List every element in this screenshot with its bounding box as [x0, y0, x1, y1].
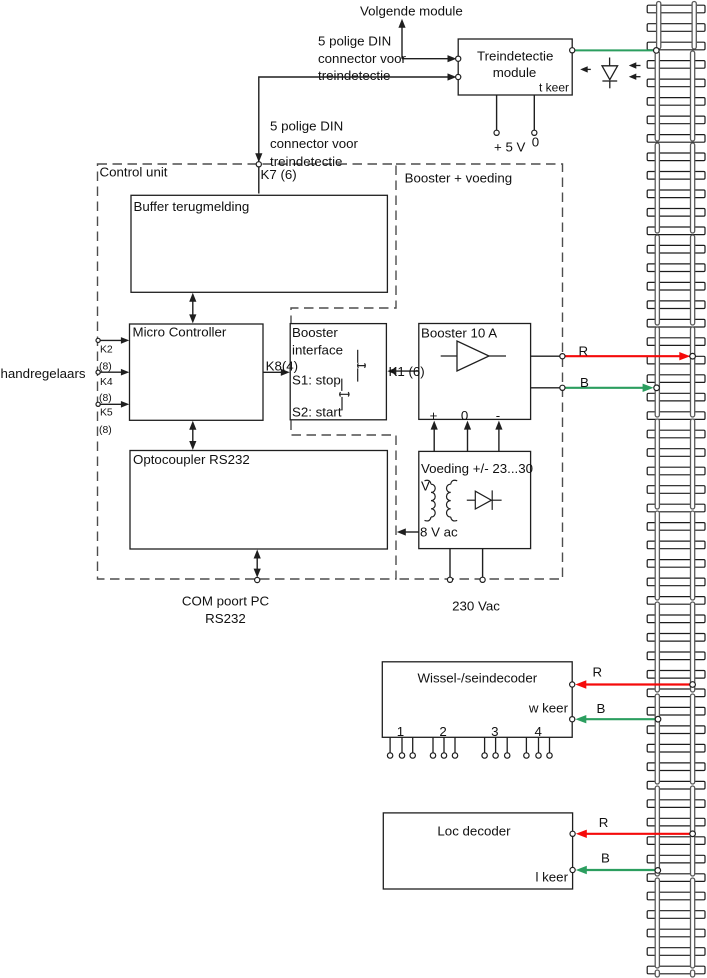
svg-text:R: R: [593, 664, 603, 679]
track right rail: [691, 2, 697, 978]
svg-text:K5: K5: [100, 408, 113, 419]
voeding naar booster pijl 0: [467, 428, 469, 451]
schakelaar S2 symbool: [340, 379, 349, 411]
svg-text:interface: interface: [292, 343, 343, 358]
svg-text:-: -: [496, 408, 500, 423]
svg-text:(8): (8): [99, 425, 112, 436]
booster interface box: [290, 324, 386, 420]
svg-text:4: 4: [534, 724, 541, 739]
booster 10A box: [419, 324, 531, 420]
terminal op linker rail: [654, 48, 660, 54]
svg-text:treindetectie: treindetectie: [270, 154, 342, 169]
wire: 0 aansluiting: [533, 95, 535, 130]
control unit dashed border: [98, 164, 397, 579]
svg-text:R: R: [599, 815, 609, 830]
dubbele pijl buffer-microcontroller: [192, 296, 194, 320]
schakelaar S1 symbool: [358, 350, 366, 382]
svg-text:B: B: [597, 701, 606, 716]
svg-text:Wissel-/seindecoder: Wissel-/seindecoder: [417, 670, 537, 685]
svg-text:+: +: [430, 408, 438, 423]
svg-text:3: 3: [491, 724, 498, 739]
svg-text:K4: K4: [100, 377, 113, 388]
voeding box: [419, 451, 531, 548]
svg-text:S1: stop: S1: stop: [292, 372, 341, 387]
svg-text:Booster 10 A: Booster 10 A: [421, 326, 497, 341]
svg-text:B: B: [580, 375, 589, 390]
wire loc B: [584, 869, 655, 871]
wire: groene verbinding module naar rail: [572, 49, 656, 51]
terminal: module ingang onder: [456, 74, 461, 79]
svg-text:Booster + voeding: Booster + voeding: [405, 171, 513, 186]
transformator symbool: [425, 480, 458, 521]
svg-text:2: 2: [439, 724, 446, 739]
terminal module rechtsboven: [570, 48, 575, 53]
svg-text:Loc decoder: Loc decoder: [437, 824, 511, 839]
wire booster R uitgang: [531, 355, 560, 357]
svg-text:Control unit: Control unit: [100, 165, 168, 180]
wire 230V aansluiting rechts: [482, 549, 484, 577]
svg-text:B: B: [601, 850, 610, 865]
svg-text:treindetectie: treindetectie: [318, 68, 390, 83]
svg-text:K2: K2: [100, 344, 113, 355]
svg-text:COM poort PC: COM poort PC: [182, 593, 270, 608]
licht pijl rechtsboven: [635, 65, 641, 67]
svg-text:8 V ac: 8 V ac: [420, 525, 458, 540]
svg-text:S2: start: S2: start: [292, 405, 342, 420]
svg-text:K1 (6): K1 (6): [389, 364, 425, 379]
buffer terugmelding box: [131, 195, 387, 292]
wire wissel B: [584, 718, 657, 720]
handregelaar aansluiting K4: [98, 371, 126, 373]
svg-text:Voeding +/- 23...30: Voeding +/- 23...30: [421, 461, 533, 476]
wire K8 microcontroller naar booster interface: [263, 371, 286, 373]
wire: DIN connector K7 naar treindetectie module en buffer: [259, 77, 452, 194]
svg-text:0: 0: [532, 135, 539, 150]
treindetectie module box: [458, 39, 572, 95]
licht pijl rechtsonder: [635, 76, 641, 78]
wire 8V ac pijl: [403, 531, 419, 533]
optocoupler box: [130, 451, 387, 550]
track sleepers: [647, 5, 705, 974]
wissel-/seindecoder box: [382, 662, 572, 738]
svg-text:1: 1: [397, 724, 404, 739]
dubbele pijl microcontroller-optocoupler: [192, 424, 194, 447]
track left rail: [655, 2, 661, 978]
svg-text:+ 5 V: + 5 V: [494, 140, 526, 155]
svg-text:230 Vac: 230 Vac: [452, 598, 500, 613]
svg-text:t keer: t keer: [539, 80, 569, 94]
svg-text:Buffer terugmelding: Buffer terugmelding: [134, 199, 250, 214]
photodiode treindetectie: [602, 58, 618, 89]
wire: +5V aansluiting: [496, 95, 498, 130]
handregelaar aansluiting K5: [98, 403, 126, 405]
terminal COM poort: [255, 577, 260, 582]
svg-text:Treindetectie: Treindetectie: [477, 49, 553, 64]
svg-text:l keer: l keer: [535, 869, 568, 884]
svg-text:(8): (8): [99, 361, 112, 372]
wire 230V aansluiting links: [449, 549, 451, 577]
booster + voeding dashed border: [396, 164, 563, 579]
versterker symbool: [441, 341, 506, 371]
svg-text:connector voor: connector voor: [270, 136, 359, 151]
wire booster B uitgang: [531, 387, 560, 389]
svg-text:(8): (8): [99, 393, 112, 404]
svg-text:5 polige DIN: 5 polige DIN: [270, 119, 343, 134]
svg-text:5 polige DIN: 5 polige DIN: [318, 33, 391, 48]
svg-text:K8(4): K8(4): [266, 359, 299, 374]
micro controller box: [130, 324, 264, 420]
svg-text:Booster: Booster: [292, 325, 338, 340]
svg-text:module: module: [493, 65, 537, 80]
svg-text:Optocoupler RS232: Optocoupler RS232: [133, 452, 250, 467]
svg-text:Micro Controller: Micro Controller: [133, 324, 227, 339]
wire wissel R: [584, 683, 691, 685]
dubbele pijl optocoupler-COM poort: [256, 553, 258, 575]
voeding naar booster pijl +: [433, 428, 435, 451]
wire K1 booster interface naar booster: [391, 370, 419, 372]
svg-text:RS232: RS232: [205, 611, 246, 626]
handregelaar aansluiting K2: [98, 339, 126, 341]
svg-text:handregelaars: handregelaars: [1, 366, 86, 381]
licht pijl links: [586, 68, 591, 70]
voeding naar booster pijl -: [498, 428, 500, 451]
wissel uitgangen 1-4: [389, 737, 391, 753]
wire loc R: [584, 833, 691, 835]
terminal K7 op control unit rand: [256, 162, 261, 167]
wire: 5 polige DIN naar volgende module: [402, 25, 452, 59]
svg-text:R: R: [579, 343, 589, 358]
diode symbool: [467, 490, 502, 510]
svg-text:w keer: w keer: [528, 701, 569, 716]
terminal: module ingang boven: [456, 56, 461, 61]
svg-text:connector voor: connector voor: [318, 51, 407, 66]
loc decoder box: [383, 813, 572, 889]
svg-text:0: 0: [461, 408, 468, 423]
svg-text:Volgende module: Volgende module: [360, 3, 463, 18]
